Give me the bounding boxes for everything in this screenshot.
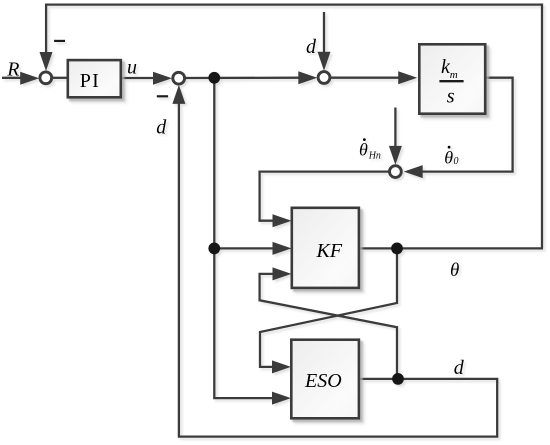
wire: S1 to PI: [52, 77, 66, 79]
summing junction S3: [318, 72, 330, 84]
arrowhead: theta_Hn down into S4: [389, 146, 402, 165]
wire: theta feedback top loop (right edge up, across top, down to S1): [46, 5, 542, 249]
arrowhead: PI output into S2: [153, 72, 172, 85]
svg-text:θ: θ: [444, 147, 453, 167]
wire: KF output down-diagonal crossover to ESO input 1: [260, 248, 397, 367]
wire: S4 to KF input 1: [260, 172, 389, 221]
block ESO: [291, 340, 359, 419]
label theta_Hn dot: [359, 138, 381, 161]
wire: R input: [2, 77, 26, 79]
arrowhead: into ESO input 1: [272, 360, 291, 373]
block km/s: [419, 44, 485, 113]
svg-text:0: 0: [454, 156, 459, 167]
arrowhead: into S3: [298, 71, 317, 84]
arrowhead: into km/s block: [398, 71, 417, 84]
wire: PI to S2: [122, 77, 158, 79]
arrowhead: R into S1: [20, 72, 39, 85]
summing junction S1: [40, 72, 52, 84]
wire: u line vertical from J1 down to ESO input 2: [214, 78, 277, 398]
wire: d disturbance drop: [323, 12, 325, 57]
wire: ESO output to bottom loop up into S2: [179, 92, 497, 437]
arrowhead: theta_0 left into S4: [404, 165, 423, 178]
wire: S3 to km/s block: [330, 77, 404, 79]
arrowhead: into KF input 2: [273, 242, 292, 255]
node J3 on ESO output: [392, 373, 404, 385]
wire: KF output to right edge: [360, 247, 543, 249]
svg-text:ESO: ESO: [304, 370, 342, 392]
minus sign at S1: [54, 40, 65, 42]
svg-text:PI: PI: [80, 70, 100, 92]
node J4 on u line at KF input: [208, 243, 220, 255]
node J1 on u line: [208, 72, 220, 84]
svg-text:KF: KF: [316, 240, 343, 262]
label km over s fraction: [439, 56, 463, 108]
svg-text:d: d: [454, 357, 465, 379]
summing junction S4: [390, 166, 402, 178]
arrowhead: into KF input 3: [273, 267, 292, 280]
svg-text:u: u: [127, 57, 137, 79]
arrowhead: feedback down into S1: [40, 52, 53, 71]
wire: km/s output to S4: [416, 78, 513, 172]
arrowhead: into KF input 1: [273, 214, 292, 227]
svg-text:s: s: [447, 86, 455, 108]
wire: theta_Hn input drop to S4: [394, 108, 396, 153]
block PI: [68, 60, 121, 97]
wire: ESO output up-diagonal crossover to KF input 3: [260, 274, 397, 379]
arrowhead: into ESO input 2: [272, 392, 291, 405]
svg-text:θ: θ: [450, 260, 459, 281]
svg-text:m: m: [450, 69, 458, 81]
svg-text:d: d: [156, 117, 167, 139]
arrowhead: d down into S3: [318, 52, 331, 71]
wire: S2 to S3 through node J1: [185, 77, 304, 80]
block KF: [292, 208, 359, 288]
wire: J4 branch to KF input 2: [214, 247, 277, 249]
node J2 on KF output: [391, 243, 403, 255]
summing junction S2: [173, 72, 185, 84]
minus sign at S2: [157, 95, 168, 97]
svg-text:Hn: Hn: [368, 150, 381, 161]
label theta_0 dot: [444, 146, 458, 168]
arrowhead: disturbance loop up into S2: [172, 85, 185, 104]
svg-text:R: R: [6, 59, 19, 81]
svg-text:d: d: [306, 36, 317, 58]
svg-text:θ: θ: [359, 140, 368, 160]
